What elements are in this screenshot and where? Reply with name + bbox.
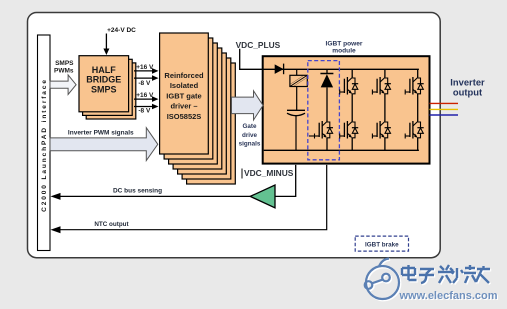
svg-text:HALF: HALF xyxy=(92,65,116,75)
svg-text:BRIDGE: BRIDGE xyxy=(86,75,121,85)
phase wire W (blue) xyxy=(430,114,459,116)
Inverter PWM block arrow xyxy=(50,128,158,161)
svg-text:drive: drive xyxy=(242,132,258,139)
VDC_PLUS wire xyxy=(240,49,263,70)
svg-text:+16 V: +16 V xyxy=(136,92,154,99)
phase wire V (yellow) xyxy=(430,108,459,110)
svg-text:-8 V: -8 V xyxy=(138,80,151,87)
svg-text:VDC_MINUS: VDC_MINUS xyxy=(244,168,294,178)
C2000 LaunchPAD interface bar xyxy=(38,35,51,251)
IGBT Q3 top leg3 xyxy=(405,77,424,95)
wire -8V top xyxy=(134,75,159,81)
Gate drive signals label xyxy=(239,123,261,148)
wire module to sense amp xyxy=(275,165,296,197)
brake diode D2 xyxy=(320,69,333,121)
SMPS PWMs label xyxy=(54,60,74,74)
IGBT Q5 bottom leg2 xyxy=(372,121,391,139)
svg-text:Isolated: Isolated xyxy=(170,81,199,90)
leg 2 wires xyxy=(384,69,386,150)
brake chopper dashed box xyxy=(308,61,340,160)
IGBT Q1 top leg1 xyxy=(340,77,359,95)
svg-text:Inverter PWM signals: Inverter PWM signals xyxy=(68,130,134,137)
svg-text:module: module xyxy=(332,48,356,55)
svg-text:+24-V DC: +24-V DC xyxy=(107,27,136,34)
svg-text:www.elecfans.com: www.elecfans.com xyxy=(399,290,498,302)
shunt/fuse box xyxy=(290,69,307,110)
DC link capacitor C1 xyxy=(287,110,305,150)
svg-text:PWMs: PWMs xyxy=(54,67,74,74)
phase wire U (red) xyxy=(430,102,459,104)
svg-text:NTC output: NTC output xyxy=(94,221,129,228)
panel border (board outline) xyxy=(28,13,441,258)
svg-text:Inverter: Inverter xyxy=(450,76,485,87)
bottom DC bus wire xyxy=(264,149,419,151)
leg 3 wires xyxy=(417,69,419,150)
wire +16V bottom xyxy=(134,96,159,102)
wire -8V bottom xyxy=(134,104,159,110)
half bridge SMPS stack sheet 3 xyxy=(86,63,136,119)
half bridge SMPS U2 xyxy=(79,56,129,112)
IGBT power module label xyxy=(326,40,363,54)
IGBT brake label box xyxy=(355,236,408,251)
svg-text:SMPS: SMPS xyxy=(55,60,74,67)
svg-text:IGBT brake: IGBT brake xyxy=(365,242,399,249)
watermark logo circle xyxy=(365,259,400,301)
Inverter output label xyxy=(450,76,485,97)
top DC bus wire xyxy=(263,68,419,70)
svg-text:DC bus sensing: DC bus sensing xyxy=(113,188,162,195)
IGBT power module box xyxy=(263,56,430,163)
watermark chinese glyphs xyxy=(402,265,491,284)
half bridge SMPS stack sheet 2 xyxy=(83,59,133,115)
svg-text:C2000 LaunchPAD interface: C2000 LaunchPAD interface xyxy=(41,78,48,212)
gate drive block arrow xyxy=(232,91,264,120)
+24V supply arrow xyxy=(103,34,109,56)
svg-text:output: output xyxy=(453,87,482,98)
leg 1 wires xyxy=(351,69,353,150)
IGBT Q2 top leg2 xyxy=(372,77,391,95)
svg-text:IGBT power: IGBT power xyxy=(326,40,363,47)
SMPS PWMs block arrow xyxy=(50,75,76,95)
svg-text:ISO5852S: ISO5852S xyxy=(167,112,202,121)
gate driver stack sheets xyxy=(164,38,235,184)
VDC_MINUS net label xyxy=(242,168,294,179)
IGBT Q6 bottom leg3 xyxy=(405,121,424,139)
svg-text:signals: signals xyxy=(239,141,261,148)
gate driver U3 ISO5852S xyxy=(160,33,209,154)
IGBT Q4 bottom leg1 xyxy=(340,121,359,139)
NTC output wire xyxy=(51,165,327,233)
svg-text:SMPS: SMPS xyxy=(91,84,117,94)
brake IGBT Q7 xyxy=(309,121,333,151)
svg-text:Reinforced: Reinforced xyxy=(164,71,204,80)
svg-text:driver –: driver – xyxy=(170,102,197,111)
input diode D1 xyxy=(275,64,284,75)
svg-text:-8 V: -8 V xyxy=(138,108,151,115)
DC bus sensing wire xyxy=(51,193,251,200)
svg-text:+16 V: +16 V xyxy=(136,64,154,71)
svg-text:IGBT gate: IGBT gate xyxy=(166,91,201,100)
svg-text:VDC_PLUS: VDC_PLUS xyxy=(236,40,281,50)
wire +16V top xyxy=(134,68,159,74)
svg-text:Gate: Gate xyxy=(243,123,257,130)
sense amplifier (green triangle) xyxy=(250,185,275,208)
